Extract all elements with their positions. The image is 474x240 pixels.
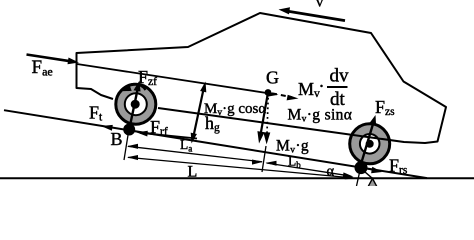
force F_ae arrow (aerodynamic, hits car front): [27, 55, 80, 65]
force F_zs arrow (normal force rear): [360, 115, 376, 167]
car body outline: [77, 13, 447, 143]
svg-text:·: ·: [319, 76, 325, 96]
force Mv·g·sinα arrow (solid, at G pointing down-slope right): [266, 91, 278, 97]
contact node rear dot: [355, 161, 368, 174]
node G dot: [265, 89, 272, 96]
front wheel rotation arrow (counterclockwise arc): [121, 84, 146, 91]
velocity v arrow: [279, 7, 346, 20]
svg-text:α: α: [327, 164, 335, 180]
dimension La: [127, 144, 263, 165]
fraction dv/dt: [327, 66, 349, 111]
svg-text:L: L: [188, 164, 198, 181]
svg-text:v: v: [316, 0, 324, 11]
force F_rs arrow (pointing down-slope from rear contact): [361, 167, 382, 173]
beltline / line of action through G: [77, 64, 270, 94]
force F_t arrowhead (on road, pointing up-slope): [101, 125, 113, 131]
force F_rf arrow (pointing up-slope into front contact): [137, 131, 198, 139]
dimension Lb: [266, 161, 354, 178]
dimension L: [127, 155, 356, 179]
rear wheel: [350, 124, 390, 164]
svg-text:Mv·g sinα: Mv·g sinα: [288, 107, 353, 125]
extension line below G: [262, 146, 266, 172]
svg-text:dv: dv: [330, 66, 350, 87]
road slope line: [4, 110, 427, 178]
svg-text:G: G: [266, 68, 279, 88]
support triangle below rear contact: [368, 179, 378, 188]
svg-text:B: B: [111, 129, 123, 149]
force Mv·dv/dt arrow (dashed): [272, 93, 299, 100]
force F_zf arrow (normal force front): [129, 81, 140, 130]
extension line below rear contact A: [357, 168, 361, 186]
force Mv·g arrow (vertical dotted from G): [263, 93, 270, 144]
contact node B dot: [123, 124, 135, 136]
front wheel: [116, 84, 156, 124]
extension line below B: [124, 132, 129, 160]
link from rear contact to support apex: [361, 169, 372, 179]
horizontal reference line: [0, 177, 474, 179]
force Mv·g·cosα arrow (perpendicular to slope from G): [257, 93, 268, 144]
dimension hg (double arrow perpendicular to slope): [191, 82, 207, 144]
